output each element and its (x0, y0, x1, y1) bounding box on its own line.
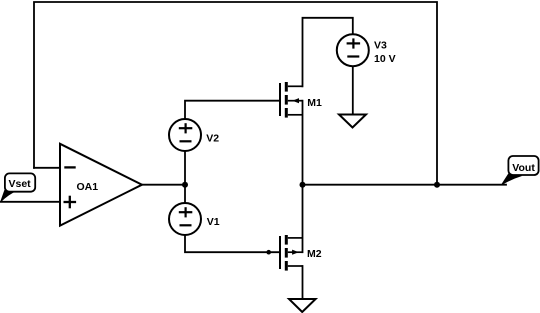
voltage source V1 (169, 203, 220, 235)
op-amp OA1 (60, 144, 142, 226)
net label Vset (1, 173, 35, 201)
svg-text:Vout: Vout (512, 162, 535, 174)
wire V1 bottom to M2 gate (185, 235, 280, 252)
svg-text:V3: V3 (374, 40, 387, 52)
svg-text:Vset: Vset (9, 178, 32, 190)
wire V3 bottom to ground (352, 66, 354, 114)
wire node B to Vout (303, 184, 507, 186)
wire feedback loop top (34, 2, 437, 185)
wire M1 source to node B (302, 101, 304, 185)
label V3 value (374, 40, 396, 65)
feedback junction dot (434, 182, 440, 188)
wire op-amp output to node A (142, 184, 185, 186)
wire M1 drain to V3 top (303, 18, 353, 87)
svg-text:M1: M1 (307, 97, 322, 109)
wire non-inverting input from Vset (0, 201, 60, 203)
junction dot on M2 gate wire (266, 250, 271, 255)
wire node B to M2 source (302, 185, 304, 253)
wire M2 drain to ground (302, 266, 304, 299)
wire V2 top to M1 gate (185, 101, 280, 120)
svg-text:V2: V2 (206, 133, 219, 145)
node B junction dot (300, 182, 306, 188)
voltage source V2 (169, 119, 219, 151)
svg-text:OA1: OA1 (77, 181, 99, 193)
svg-text:M2: M2 (307, 248, 322, 260)
net label Vout (502, 156, 539, 185)
ground below M2 (289, 299, 316, 312)
svg-text:V1: V1 (207, 216, 220, 228)
svg-text:10 V: 10 V (374, 53, 396, 65)
wire inverting input (34, 167, 60, 169)
wire node A to V2 bottom (184, 151, 186, 185)
node A junction dot (182, 182, 188, 188)
voltage source V3 (337, 34, 369, 66)
wire node A to V1 top (184, 185, 186, 204)
transistor M1 (NMOS) (280, 82, 322, 118)
transistor M2 (PMOS) (280, 235, 322, 271)
ground below V3 (339, 115, 366, 128)
